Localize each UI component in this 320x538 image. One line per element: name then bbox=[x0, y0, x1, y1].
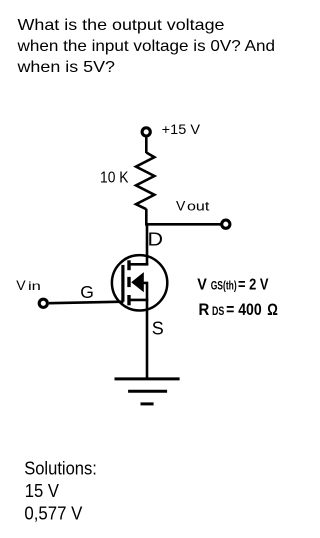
transistor Q1 drain contact bar bbox=[128, 263, 148, 266]
svg-text:= 400: = 400 bbox=[226, 301, 262, 319]
svg-text:+15 V: +15 V bbox=[162, 122, 200, 137]
label Vout bbox=[176, 197, 210, 213]
solutions text bbox=[24, 459, 97, 524]
label Vin bbox=[16, 277, 41, 293]
transistor Q1 body arrow (N-channel) bbox=[131, 272, 144, 292]
transistor Q1 source contact bar bbox=[128, 299, 148, 302]
resistor R1 10K zigzag bbox=[136, 153, 154, 210]
svg-text:R: R bbox=[199, 301, 210, 319]
svg-text:= 2 V: = 2 V bbox=[238, 276, 269, 293]
svg-text:S: S bbox=[152, 319, 164, 339]
svg-text:15 V: 15 V bbox=[25, 481, 59, 501]
transistor Q1 channel segment top bbox=[127, 260, 130, 270]
node Vin terminal bbox=[39, 299, 47, 307]
node Vout terminal bbox=[222, 220, 230, 228]
svg-text:Solutions:: Solutions: bbox=[24, 459, 97, 479]
ground symbol bar 2 bbox=[128, 390, 167, 393]
svg-text:G: G bbox=[80, 282, 94, 302]
label RDS = 400 ohm bbox=[199, 301, 278, 319]
svg-text:V: V bbox=[16, 277, 26, 293]
svg-text:in: in bbox=[28, 279, 41, 293]
svg-text:V: V bbox=[197, 276, 207, 293]
transistor Q1 channel segment middle bbox=[127, 277, 130, 287]
svg-text:V: V bbox=[176, 197, 186, 213]
question text bbox=[16, 17, 275, 76]
svg-text:when the input voltage is 0V?: when the input voltage is 0V? And bbox=[16, 38, 275, 55]
transistor Q1 channel segment bottom bbox=[127, 295, 130, 305]
wire gate to Vin terminal bbox=[49, 302, 124, 304]
wire supply terminal to resistor bbox=[145, 137, 148, 153]
wire drain bbox=[146, 224, 149, 265]
label VGS(th) = 2 V bbox=[197, 276, 269, 293]
wire drain node to Vout terminal bbox=[145, 223, 221, 226]
svg-text:0,577 V: 0,577 V bbox=[24, 504, 82, 524]
transistor Q1 gate electrode bbox=[121, 265, 124, 302]
wire resistor to drain node bbox=[145, 209, 148, 226]
transistor Q1 body circle bbox=[112, 255, 167, 310]
transistor Q1 body-to-source link bbox=[142, 283, 147, 300]
svg-text:when is 5V?: when is 5V? bbox=[16, 59, 115, 76]
ground symbol bar 1 bbox=[115, 377, 180, 380]
svg-text:DS: DS bbox=[212, 306, 225, 318]
wire source to ground bbox=[146, 300, 149, 379]
svg-text:out: out bbox=[187, 199, 210, 214]
svg-text:What is the output voltage: What is the output voltage bbox=[18, 17, 225, 34]
svg-text:10 K: 10 K bbox=[100, 170, 129, 187]
svg-text:Ω: Ω bbox=[267, 301, 278, 319]
svg-text:GS(th): GS(th) bbox=[211, 281, 237, 293]
svg-text:D: D bbox=[148, 230, 164, 250]
node +15V supply terminal bbox=[142, 128, 150, 136]
ground symbol bar 3 bbox=[141, 402, 154, 405]
